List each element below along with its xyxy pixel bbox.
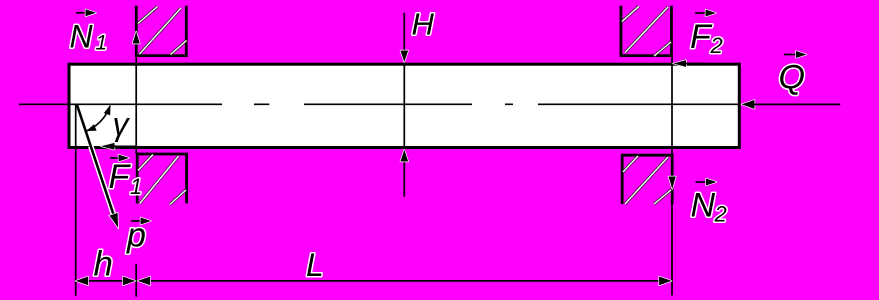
- svg-text:1: 1: [130, 174, 142, 199]
- svg-text:L: L: [306, 247, 324, 283]
- svg-text:H: H: [412, 7, 435, 42]
- svg-text:h: h: [94, 244, 113, 283]
- svg-text:2: 2: [710, 33, 723, 58]
- svg-text:F: F: [109, 158, 132, 196]
- svg-text:γ: γ: [113, 106, 131, 142]
- svg-text:1: 1: [96, 32, 108, 55]
- svg-text:N: N: [70, 19, 94, 55]
- svg-text:p: p: [126, 217, 146, 255]
- svg-text:Q: Q: [779, 59, 805, 97]
- svg-text:N: N: [691, 187, 716, 225]
- svg-text:2: 2: [714, 202, 727, 227]
